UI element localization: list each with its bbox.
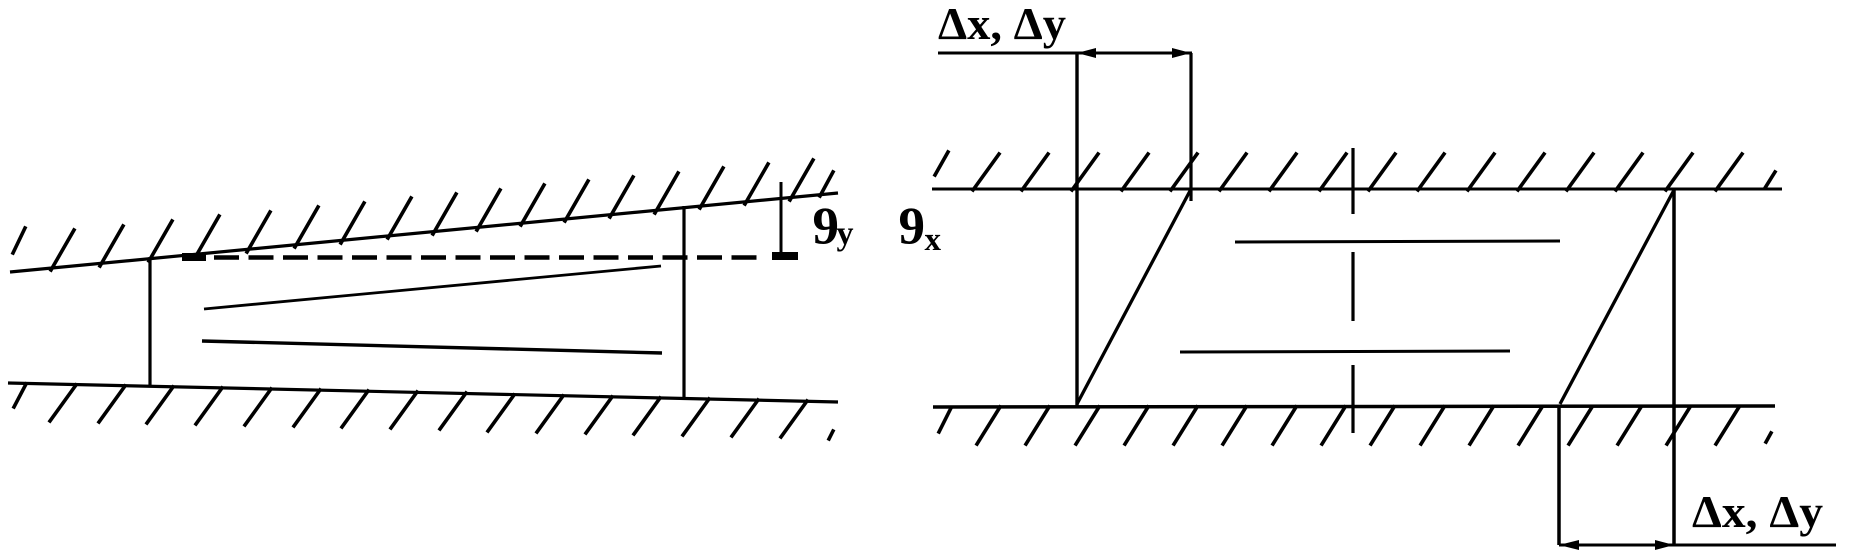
right figure: carriage inner lower line bbox=[1180, 351, 1510, 352]
right figure: displaced left edge (diagonal) bbox=[1077, 189, 1191, 404]
right figure: lower wall hatching bbox=[939, 407, 1771, 444]
right figure: lower guideway wall line bbox=[933, 406, 1775, 407]
left figure: lower guideway wall line bbox=[8, 383, 838, 402]
right figure: bottom dimension line with arrows bbox=[1559, 540, 1836, 550]
left figure: carriage inner bottom line bbox=[202, 341, 662, 353]
svg-text:y: y bbox=[837, 216, 854, 253]
right figure: bottom dimension extension (vertical) bbox=[1557, 406, 1561, 545]
left figure: upper wall hatching bbox=[13, 160, 833, 270]
left figure: carriage inner top line bbox=[204, 266, 661, 309]
right figure: carriage original left edge (vertical) bbox=[1075, 53, 1078, 406]
label ϑy bbox=[813, 198, 854, 256]
right figure: top dimension extension (vertical) bbox=[1189, 53, 1192, 201]
left figure: carriage left edge bbox=[148, 257, 151, 387]
right figure: centerline (vertical chain line) bbox=[1351, 148, 1354, 433]
svg-text:Δx, Δy: Δx, Δy bbox=[938, 0, 1067, 49]
svg-text:9: 9 bbox=[813, 198, 840, 256]
right figure: carriage inner upper line bbox=[1235, 241, 1560, 242]
label ϑx bbox=[899, 198, 942, 259]
right figure: carriage right edge (vertical) bbox=[1672, 189, 1676, 545]
svg-text:Δx, Δy: Δx, Δy bbox=[1692, 487, 1824, 537]
left figure: datum dashed line bbox=[182, 253, 757, 262]
left figure: angle dimension tick bbox=[772, 182, 798, 260]
svg-text:x: x bbox=[925, 222, 942, 258]
right figure: upper wall hatching bbox=[935, 152, 1775, 190]
right figure: top dimension line with arrows bbox=[938, 48, 1192, 58]
right figure: displaced right edge (diagonal) bbox=[1560, 190, 1674, 404]
left figure: upper guideway wall line bbox=[10, 193, 838, 272]
left figure: lower wall hatching bbox=[14, 384, 833, 439]
left figure: carriage right edge bbox=[682, 206, 685, 399]
svg-text:9: 9 bbox=[899, 198, 926, 256]
right figure: upper guideway wall line bbox=[932, 188, 1782, 191]
